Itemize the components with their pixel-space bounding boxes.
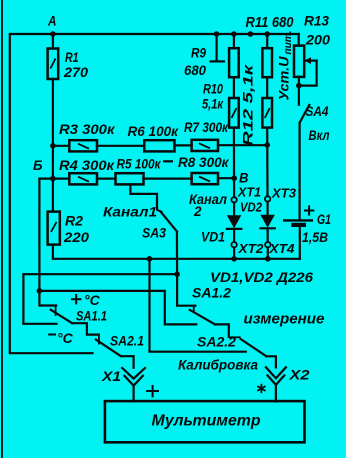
wire SA2.2 to X2 — [266, 356, 276, 367]
resistor R13 trimmer — [294, 46, 304, 77]
wire bus1 to calibration contact — [150, 259, 246, 352]
svg-text:200: 200 — [305, 32, 330, 48]
diode VD2 — [260, 215, 274, 228]
svg-text:R9: R9 — [191, 45, 206, 61]
wire row1 right to R12 column — [218, 144, 267, 146]
svg-text:XT3: XT3 — [271, 186, 297, 201]
terminal XT1 — [231, 197, 236, 202]
wiper arrow R13 — [307, 59, 317, 61]
wire row2 left — [53, 178, 69, 180]
wire row1 mid2 — [175, 144, 192, 146]
plus sign X1 — [146, 390, 159, 392]
wire R9 to R10 — [233, 77, 235, 98]
svg-text:SA4: SA4 — [306, 103, 329, 119]
svg-text:°С: °С — [84, 292, 101, 308]
svg-text:5,1к: 5,1к — [202, 96, 224, 112]
svg-text:R13: R13 — [304, 13, 329, 29]
wire rail to R9 — [233, 34, 235, 48]
node R3 junction — [50, 143, 56, 149]
svg-text:SA2.1: SA2.1 — [110, 333, 144, 349]
svg-text:1,5В: 1,5В — [302, 229, 328, 245]
asterisk X2 — [257, 384, 265, 393]
node A — [50, 31, 56, 37]
svg-text:VD2: VD2 — [240, 200, 263, 215]
resistor R5 — [116, 173, 144, 184]
resistor R12 — [262, 98, 272, 128]
switch SA3 — [156, 210, 162, 213]
wire R4 node to SA1.1 — [39, 179, 56, 306]
resistor R9 — [229, 48, 239, 77]
node rail R9 — [231, 31, 237, 37]
terminal XT3 — [265, 196, 270, 201]
node rail R11 — [264, 31, 270, 37]
svg-text:XT4: XT4 — [268, 241, 295, 256]
resistor R7 — [192, 140, 218, 151]
switch SA4 — [300, 105, 310, 123]
wire row2 right to node B — [218, 177, 234, 179]
svg-text:680: 680 — [184, 62, 206, 78]
svg-text:VD1,VD2 Д226: VD1,VD2 Д226 — [210, 269, 313, 285]
terminal XT2 — [231, 242, 236, 247]
dash between labels — [163, 160, 173, 162]
wire SA3 to bus2 — [176, 232, 178, 275]
resistor R4 — [69, 173, 97, 184]
node R4 junction — [50, 176, 56, 182]
wire R13 to SA4 — [298, 77, 300, 105]
svg-text:XT2: XT2 — [237, 241, 264, 256]
wire XT3 to VD2 — [267, 202, 269, 215]
wiper loop to bottom node — [299, 61, 317, 86]
svg-text:Уст.U: Уст.U — [277, 55, 292, 100]
svg-text:R11 680: R11 680 — [246, 14, 295, 31]
wire R2 to bus1 — [53, 245, 300, 259]
node SA3/SA1.2 junction — [174, 271, 180, 277]
svg-text:SA1.1: SA1.1 — [76, 308, 107, 324]
svg-text:270: 270 — [63, 64, 88, 80]
connector X2 — [266, 367, 286, 378]
wire row2 mid2 — [144, 178, 192, 180]
svg-text:XT1: XT1 — [237, 185, 261, 200]
wire R1 column — [52, 34, 54, 49]
node rail stem1 — [214, 31, 220, 37]
svg-text:В: В — [239, 170, 249, 186]
wire R5 tap to SA3 — [130, 184, 157, 208]
resistor R6 — [144, 140, 174, 151]
wire VD1 to XT2 — [233, 229, 235, 242]
wire bus2 — [23, 274, 177, 324]
node branch — [37, 288, 43, 294]
wire R1 to R2 column — [52, 79, 54, 212]
node rail stem2 — [248, 31, 254, 37]
page edge line — [1, 0, 3, 458]
wire branch to SA1.2 alt contact — [39, 291, 196, 325]
svg-text:G1: G1 — [317, 211, 331, 227]
svg-text:R10: R10 — [203, 81, 223, 97]
svg-text:Б: Б — [33, 157, 43, 173]
svg-text:пит.: пит. — [282, 30, 294, 54]
svg-text:R6 100к: R6 100к — [128, 123, 179, 139]
resistor R10 — [229, 98, 239, 128]
svg-text:Вкл: Вкл — [309, 127, 330, 143]
wire XT4 to bus1 — [267, 247, 269, 258]
svg-text:R5 100к: R5 100к — [117, 156, 162, 172]
svg-text:А: А — [47, 13, 56, 29]
svg-text:R2: R2 — [65, 213, 83, 229]
node R12 bottom junction — [264, 142, 270, 148]
wire row1 left — [53, 145, 69, 147]
plus sign +C — [71, 298, 82, 300]
svg-text:Мультиметр: Мультиметр — [152, 413, 261, 430]
svg-text:2: 2 — [193, 203, 202, 219]
wire row1 mid — [97, 145, 144, 147]
battery G1 — [283, 219, 313, 221]
node bus1 X2 branch — [147, 256, 153, 262]
wire SA2.1 to X1 — [121, 356, 134, 368]
wire SA4 to battery — [299, 123, 301, 220]
wire X1 to multimeter — [133, 386, 135, 401]
svg-text:SA2.2: SA2.2 — [197, 334, 236, 350]
svg-text:R4 300к: R4 300к — [59, 157, 115, 173]
wire top rail and left border loop to SA2.1 contact — [10, 34, 299, 353]
wire R11 to R12 — [266, 77, 268, 98]
svg-text:измерение: измерение — [244, 311, 325, 328]
switch SA2.1 — [98, 335, 100, 345]
node B — [231, 175, 237, 181]
resistor R2 — [48, 212, 60, 245]
wire X2 to multimeter — [275, 385, 277, 402]
wire battery to bus1 — [299, 227, 301, 259]
wire XT2 to bus1 — [233, 247, 235, 258]
svg-text:X2: X2 — [288, 367, 309, 383]
resistor R8 — [192, 173, 218, 184]
wire row2 mid — [97, 178, 116, 180]
svg-text:R1: R1 — [65, 49, 79, 65]
svg-text:Калибровка: Калибровка — [178, 358, 258, 373]
wire rail corner to R13 — [298, 34, 300, 46]
wire XT1 to VD1 — [233, 203, 235, 216]
svg-text:R7 300к: R7 300к — [184, 119, 229, 135]
wire R12 down to XT3 — [266, 128, 268, 197]
stem tap 1 — [216, 34, 218, 61]
svg-text:R12 5,1к: R12 5,1к — [240, 64, 256, 146]
resistor R3 — [69, 140, 97, 151]
switch SA1.2 — [177, 274, 195, 306]
svg-text:X1: X1 — [101, 368, 121, 384]
wire rail to R11 — [266, 34, 268, 48]
svg-text:SA1.2: SA1.2 — [192, 285, 231, 301]
svg-text:°С: °С — [57, 330, 74, 346]
resistor R11 — [262, 48, 272, 77]
wire SA1.2 to SA2.2 — [215, 324, 229, 336]
wire SA1.1 to SA2.1 — [72, 323, 99, 334]
svg-text:Канал1: Канал1 — [103, 204, 157, 220]
terminal XT4 — [265, 242, 270, 247]
connector X1 — [122, 368, 145, 379]
plus sign battery — [304, 210, 314, 212]
diode VD1 — [227, 215, 241, 228]
wire R10 down to XT1 — [233, 128, 235, 198]
wire VD2 to XT4 — [267, 228, 269, 242]
minus sign -C — [48, 334, 56, 336]
svg-text:R8 300к: R8 300к — [178, 154, 229, 170]
svg-text:SA3: SA3 — [142, 225, 166, 241]
multimeter box — [105, 401, 305, 442]
resistor R1 — [48, 49, 59, 80]
svg-text:R3 300к: R3 300к — [59, 121, 115, 137]
svg-text:220: 220 — [63, 229, 89, 245]
svg-text:VD1: VD1 — [201, 229, 225, 245]
switch SA2.2 — [229, 336, 241, 338]
switch SA1.1 — [55, 307, 57, 317]
